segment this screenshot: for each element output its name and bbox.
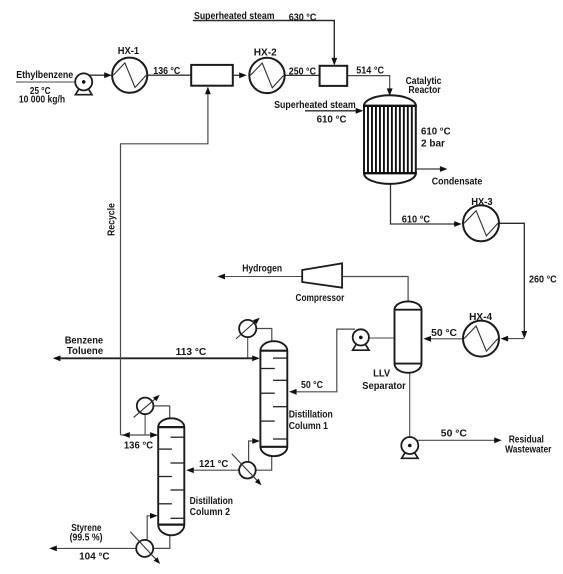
svg-text:HX-1: HX-1 [118, 46, 139, 57]
svg-text:Reactor: Reactor [408, 85, 440, 96]
svg-text:610 °C: 610 °C [421, 127, 451, 138]
svg-text:HX-3: HX-3 [471, 197, 493, 208]
svg-text:113 °C: 113 °C [176, 347, 207, 358]
svg-text:Condensate: Condensate [432, 176, 483, 187]
svg-text:2 bar: 2 bar [421, 139, 445, 150]
svg-text:Toluene: Toluene [67, 346, 103, 357]
svg-text:Column 1: Column 1 [289, 421, 328, 432]
svg-text:630 °C: 630 °C [289, 12, 317, 23]
svg-text:Compressor: Compressor [296, 293, 345, 304]
svg-text:250 °C: 250 °C [289, 67, 317, 78]
svg-text:514 °C: 514 °C [356, 66, 384, 77]
svg-text:Wastewater: Wastewater [505, 445, 551, 456]
svg-text:104 °C: 104 °C [79, 552, 110, 563]
svg-text:Superheated steam: Superheated steam [194, 11, 275, 22]
svg-text:136 °C: 136 °C [124, 441, 154, 452]
svg-text:HX-2: HX-2 [254, 47, 277, 58]
svg-text:Distillation: Distillation [190, 496, 233, 507]
svg-text:Recycle: Recycle [107, 203, 118, 236]
svg-text:121 °C: 121 °C [199, 459, 229, 470]
svg-text:136 °C: 136 °C [153, 66, 180, 77]
svg-text:10 000 kg/h: 10 000 kg/h [19, 94, 65, 105]
svg-text:Separator: Separator [362, 381, 406, 392]
svg-text:260 °C: 260 °C [529, 274, 557, 285]
svg-text:610 °C: 610 °C [317, 114, 347, 125]
svg-text:(99.5 %): (99.5 %) [70, 532, 103, 543]
svg-text:Ethylbenzene: Ethylbenzene [16, 70, 73, 81]
svg-text:610 °C: 610 °C [402, 214, 431, 225]
svg-text:Superheated steam: Superheated steam [274, 100, 356, 111]
svg-text:Distillation: Distillation [289, 410, 333, 421]
svg-text:Column 2: Column 2 [190, 507, 231, 518]
svg-text:Hydrogen: Hydrogen [242, 263, 282, 274]
svg-text:HX-4: HX-4 [469, 312, 492, 323]
svg-text:50 °C: 50 °C [431, 328, 457, 339]
svg-text:50 °C: 50 °C [441, 429, 468, 440]
svg-text:Benzene: Benzene [65, 335, 104, 346]
svg-text:LLV: LLV [373, 369, 390, 380]
svg-text:50 °C: 50 °C [301, 380, 323, 391]
